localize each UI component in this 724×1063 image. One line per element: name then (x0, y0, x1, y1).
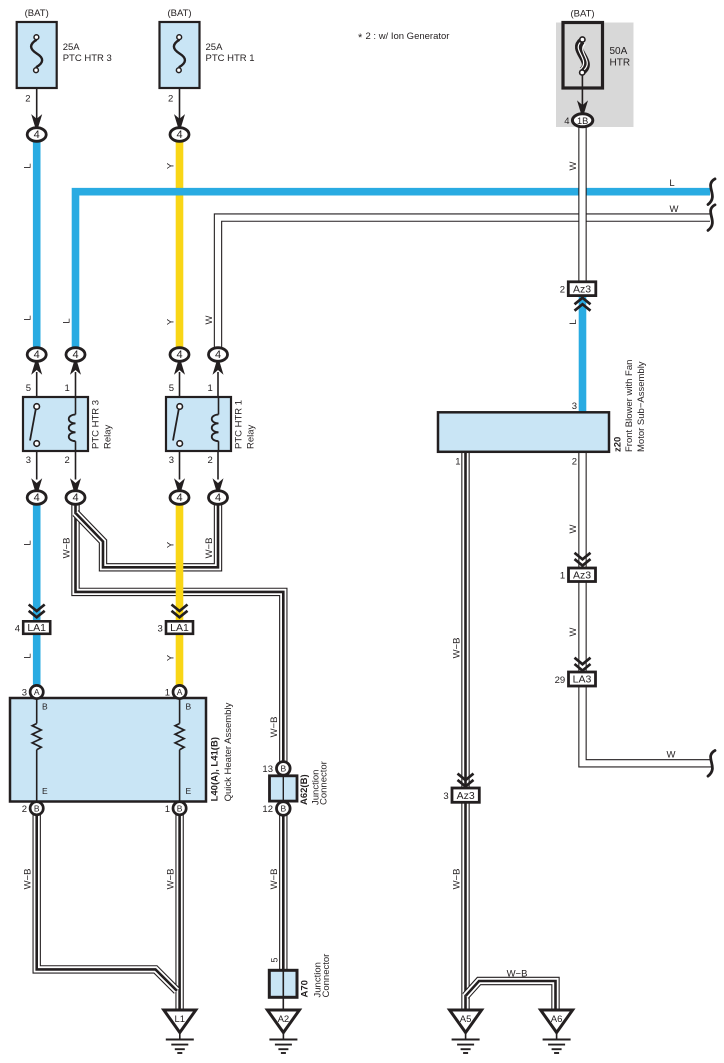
svg-text:PTC HTR 1: PTC HTR 1 (234, 400, 245, 449)
svg-text:2: 2 (25, 94, 30, 105)
svg-text:A: A (34, 687, 40, 697)
svg-text:2: 2 (65, 455, 70, 466)
svg-text:1: 1 (455, 457, 460, 468)
svg-text:Connector: Connector (321, 954, 332, 998)
svg-text:W: W (568, 524, 579, 533)
svg-text:4: 4 (176, 349, 182, 361)
svg-text:4: 4 (564, 116, 569, 127)
svg-text:PTC HTR 1: PTC HTR 1 (206, 53, 255, 64)
svg-text:3: 3 (572, 401, 577, 412)
svg-text:(BAT): (BAT) (25, 8, 49, 19)
svg-text:LA1: LA1 (27, 622, 46, 634)
svg-text:L1: L1 (175, 1014, 186, 1025)
svg-text:1: 1 (165, 688, 170, 699)
svg-text:L: L (23, 315, 34, 320)
svg-text:W: W (568, 161, 579, 170)
svg-text:Front Blower with Fan: Front Blower with Fan (624, 360, 635, 452)
svg-text:W−B: W−B (452, 638, 463, 659)
svg-text:29: 29 (555, 675, 566, 686)
svg-text:4: 4 (34, 349, 40, 361)
svg-text:A5: A5 (460, 1014, 472, 1025)
svg-text:B: B (42, 702, 48, 712)
svg-text:LA3: LA3 (573, 674, 592, 686)
svg-text:1: 1 (65, 383, 70, 394)
svg-text:W−B: W−B (166, 869, 177, 890)
svg-text:2: 2 (572, 457, 577, 468)
svg-text:W: W (568, 627, 579, 636)
svg-text:Motor Sub−Assembly: Motor Sub−Assembly (636, 361, 647, 452)
svg-text:L: L (568, 319, 579, 324)
svg-text:W−B: W−B (269, 869, 280, 890)
svg-text:Az3: Az3 (573, 283, 591, 295)
svg-text:2: 2 (560, 284, 565, 295)
svg-text:A: A (177, 687, 183, 697)
svg-text:L: L (23, 540, 34, 545)
svg-text:B: B (34, 803, 40, 813)
svg-text:W−B: W−B (23, 869, 34, 890)
svg-text:A6: A6 (551, 1014, 563, 1025)
svg-text:L: L (669, 178, 674, 189)
svg-text:Az3: Az3 (573, 569, 591, 581)
svg-text:4: 4 (215, 349, 221, 361)
svg-text:W−B: W−B (62, 538, 73, 559)
svg-text:4: 4 (176, 492, 182, 504)
svg-text:4: 4 (34, 492, 40, 504)
svg-text:B: B (280, 763, 286, 773)
svg-text:3: 3 (22, 688, 27, 699)
svg-text:Y: Y (166, 162, 177, 169)
svg-text:A70: A70 (300, 980, 311, 997)
svg-text:Y: Y (166, 318, 177, 325)
svg-text:W−B: W−B (269, 717, 280, 738)
svg-text:25A: 25A (206, 42, 224, 53)
svg-text:PTC HTR 3: PTC HTR 3 (91, 400, 102, 449)
svg-text:1B: 1B (577, 116, 588, 126)
svg-text:Relay: Relay (103, 424, 114, 449)
svg-text:W: W (204, 315, 215, 324)
svg-text:Y: Y (166, 654, 177, 661)
svg-text:B: B (280, 804, 286, 814)
svg-text:3: 3 (169, 455, 174, 466)
svg-text:1: 1 (208, 383, 213, 394)
svg-text:3: 3 (443, 791, 448, 802)
svg-text:z20: z20 (613, 437, 624, 452)
svg-text:W: W (670, 204, 679, 215)
svg-text:(BAT): (BAT) (167, 8, 191, 19)
svg-text:Y: Y (166, 541, 177, 548)
svg-text:Az3: Az3 (457, 790, 475, 802)
svg-text:Connector: Connector (319, 761, 330, 805)
svg-text:LA1: LA1 (170, 622, 189, 634)
svg-text:3: 3 (158, 623, 163, 634)
svg-text:5: 5 (26, 383, 31, 394)
svg-text:B: B (177, 803, 183, 813)
svg-text:13: 13 (262, 764, 273, 775)
svg-text:5: 5 (169, 383, 174, 394)
svg-text:12: 12 (262, 804, 273, 815)
svg-text:Quick Heater Assembly: Quick Heater Assembly (223, 702, 234, 801)
svg-text:A62(B): A62(B) (299, 774, 310, 805)
svg-text:B: B (186, 702, 192, 712)
svg-text:L40(A), L41(B): L40(A), L41(B) (210, 737, 221, 801)
svg-text:3: 3 (26, 455, 31, 466)
svg-text:PTC HTR 3: PTC HTR 3 (63, 53, 112, 64)
svg-text:2: 2 (22, 804, 27, 815)
svg-text:W−B: W−B (452, 869, 463, 890)
svg-text:1: 1 (560, 571, 565, 582)
svg-text:5: 5 (270, 957, 280, 962)
svg-text:W: W (667, 750, 676, 761)
svg-text:Relay: Relay (246, 424, 257, 449)
svg-text:2: 2 (208, 455, 213, 466)
svg-text:*: * (358, 32, 363, 44)
svg-text:4: 4 (215, 492, 221, 504)
svg-text:4: 4 (72, 492, 78, 504)
svg-text:E: E (42, 786, 48, 796)
svg-text:50A: 50A (610, 46, 628, 57)
svg-text:W−B: W−B (507, 969, 528, 980)
svg-text:25A: 25A (63, 42, 81, 53)
svg-text:4: 4 (72, 349, 78, 361)
svg-text:4: 4 (15, 623, 20, 634)
svg-text:E: E (186, 786, 192, 796)
svg-text:W−B: W−B (204, 538, 215, 559)
svg-text:4: 4 (34, 129, 40, 141)
svg-text:4: 4 (176, 129, 182, 141)
svg-text:L: L (23, 653, 34, 658)
svg-text:A2: A2 (278, 1014, 290, 1025)
svg-text:2 : w/ Ion Generator: 2 : w/ Ion Generator (366, 31, 450, 42)
svg-text:L: L (23, 163, 34, 168)
svg-text:L: L (62, 318, 73, 323)
svg-text:HTR: HTR (610, 58, 631, 69)
svg-text:2: 2 (168, 94, 173, 105)
svg-text:(BAT): (BAT) (570, 9, 594, 20)
svg-text:1: 1 (165, 804, 170, 815)
